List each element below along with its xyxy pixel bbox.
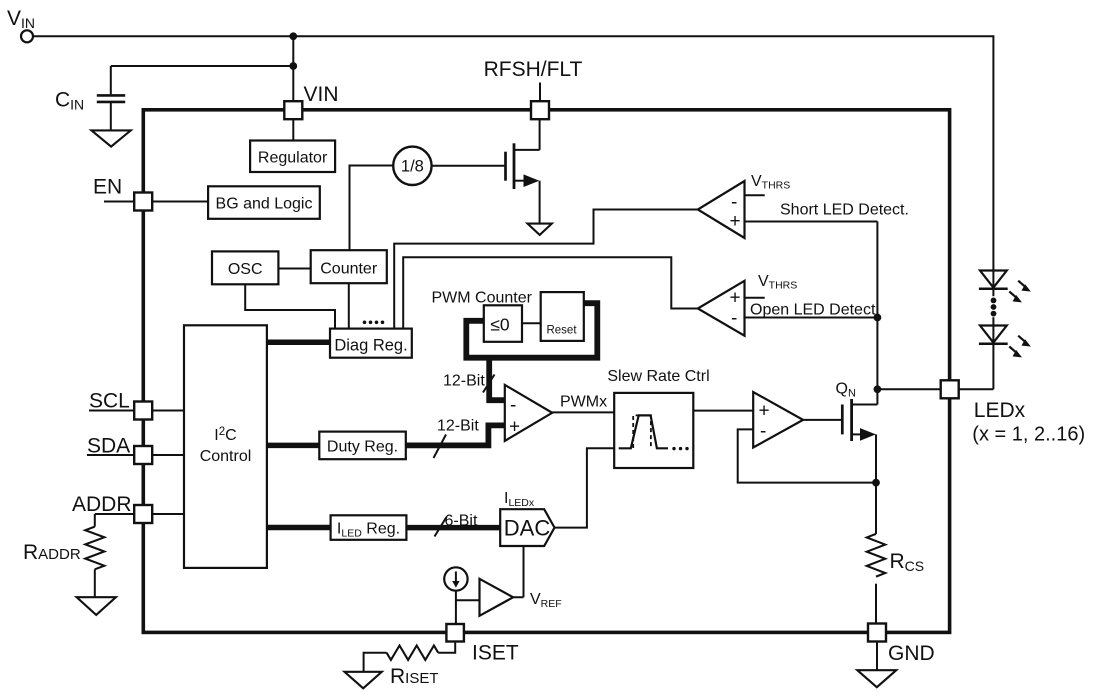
wire tap to vref buffer [456,599,480,601]
block Reset [541,292,584,341]
svg-text:ADDR: ADDR [72,493,132,516]
wire ADDR to I2C [152,513,184,515]
label 6-Bit with slash [435,513,478,537]
svg-text:Slew Rate Ctrl: Slew Rate Ctrl [607,368,709,385]
capacitor CIN [55,89,125,113]
wire open comparator minus to sense [745,317,878,319]
svg-text:VTHRS: VTHRS [751,173,790,192]
wire short comparator plus to sense [745,222,878,405]
op-amp short LED comparator [698,181,745,238]
wire op-amp feedback [738,429,876,482]
svg-text:Regulator: Regulator [258,150,328,167]
block Diag Reg [330,329,412,358]
wire VIN top rail [33,36,993,270]
svg-text:LEDx: LEDx [974,399,1026,422]
svg-text:+: + [509,417,520,438]
svg-text:Short LED Detect.: Short LED Detect. [780,202,909,219]
bus I2C to ILED Reg [267,525,331,531]
op-amp open LED comparator [698,281,745,336]
wire VTHRS stub open [745,297,765,299]
wire comparator to slew block [552,411,614,413]
svg-text:Duty Reg.: Duty Reg. [327,439,398,456]
pin EN [93,176,152,211]
bus I2C to Diag Reg [267,340,330,346]
transistor QN [836,381,878,534]
svg-text:RISET: RISET [390,665,439,688]
svg-text:1/8: 1/8 [401,158,424,176]
block PWM counter le0 [484,305,522,342]
svg-text:PWMx: PWMx [560,394,607,411]
svg-text:Diag Reg.: Diag Reg. [334,337,407,355]
svg-text:12-Bit: 12-Bit [443,373,485,390]
wire EN stub [104,201,134,203]
current source ISET [444,567,467,590]
wire SCL stub [89,410,134,412]
wire SCL to I2C [152,410,184,412]
block BG and Logic [208,186,320,219]
svg-text:VTHRS: VTHRS [758,273,797,292]
wire current source to ISET pin [455,591,457,624]
bus PWM counter loop [466,303,597,358]
wire 1/8 to gate [432,165,505,167]
svg-text:Control: Control [200,448,252,465]
svg-text:GND: GND [888,642,935,665]
op-amp output driver [753,392,803,448]
divider 1/8 [393,147,431,185]
svg-text:ISET: ISET [472,642,519,665]
block ILED Reg [331,515,407,540]
node QN source junction [872,479,880,487]
wire GND pin to ground [876,642,878,671]
bus Duty Reg to comparator plus [406,425,505,445]
svg-text:RCS: RCS [890,550,925,574]
wire 1/8 to Counter [350,166,394,251]
bus ILED Reg to DAC [406,525,500,531]
terminal V_IN [7,7,35,42]
svg-text:PWM Counter: PWM Counter [432,290,533,307]
block OSC [212,251,278,284]
label 12-Bit top with slash [443,373,495,393]
svg-text:+: + [730,288,741,309]
bus I2C to Duty Reg [267,443,319,449]
wire OSC to Counter [278,268,310,270]
regulator block [250,141,335,173]
wire op-amp to QN gate [803,419,841,421]
wire OSC to Diag Reg [245,284,335,328]
dac U-DAC [500,490,554,546]
wire SDA stub [87,454,134,456]
node top rail junction 1 [289,32,297,40]
svg-text:VREF: VREF [530,591,562,610]
pin LEDx [941,380,1085,445]
block Counter [311,250,387,283]
svg-text:Open LED Detect.: Open LED Detect. [750,302,880,319]
pin RFSH/FLT [484,58,583,119]
ground under RADDR [77,597,116,615]
svg-text:-: - [510,395,516,416]
node sense junction open [874,314,882,322]
block I2C Control [184,325,267,568]
block Duty Reg [319,432,406,460]
op-amp VREF buffer [480,579,514,616]
pin ISET [446,624,518,665]
svg-text:≤0: ≤0 [490,315,510,335]
svg-text:12-Bit: 12-Bit [437,418,479,435]
wire LEDx pin to LED string [959,344,994,390]
svg-text:+: + [759,401,770,422]
resistor RISET [387,646,439,689]
svg-text:DAC: DAC [504,516,551,541]
wire to CIN [111,66,293,94]
svg-text:VIN: VIN [7,7,35,31]
resistor RADDR [23,527,104,570]
svg-text:-: - [731,308,737,329]
wire RADDR to ground [94,569,96,597]
wire RCS to GND pin [875,584,877,624]
svg-text:QN: QN [836,381,856,400]
op-amp PWM comparator [505,385,552,441]
svg-text:RADDR: RADDR [23,541,81,564]
svg-text:OSC: OSC [228,261,263,278]
pin SCL [89,390,152,420]
wire open-detect output to Diag Reg [403,257,698,328]
transistor refresh FET [506,119,540,223]
svg-text:-: - [760,421,766,442]
wire EN to BG block [152,201,208,203]
block Slew Rate Ctrl [607,368,709,468]
wire RISET to ground [364,653,387,672]
wire short-detect output to Diag Reg [394,210,698,329]
svg-text:-: - [731,192,737,213]
ground under refresh FET [528,224,552,235]
svg-text:ILEDx: ILEDx [504,490,535,509]
wire ISET pin to RISET [438,642,455,653]
svg-text:(x = 1, 2..16): (x = 1, 2..16) [972,424,1085,446]
wire buffer to DAC [513,546,523,597]
diode LED2 [979,317,1029,356]
wire ADDR stub [95,514,134,527]
node diag dots [363,321,385,325]
wire VIN pin to Regulator [292,119,294,141]
wire SDA to I2C [152,454,184,456]
diode LED1 [979,271,1029,302]
bus 12-bit to comparator minus [489,358,505,401]
IC boundary [143,110,949,633]
pin ADDR [72,493,152,523]
wire Counter to Diag Reg [348,283,350,328]
wire QN drain to LEDx pin [877,388,940,390]
svg-text:CIN: CIN [55,89,84,113]
node QN drain junction [874,385,882,393]
ground under GND pin [857,670,896,687]
resistor RCS [867,534,924,577]
pin GND [868,624,935,666]
wire le0 to Reset [522,322,541,324]
pin SDA [87,435,152,465]
ground under RISET [345,672,382,689]
svg-text:Counter: Counter [320,261,378,278]
pin VIN [284,83,338,119]
svg-text:VIN: VIN [304,83,339,106]
svg-text:SCL: SCL [89,390,130,413]
ground under CIN [92,130,131,146]
svg-text:SDA: SDA [87,435,130,458]
svg-text:EN: EN [93,176,122,199]
label 12-Bit bottom with slash [434,418,480,459]
svg-text:6-Bit: 6-Bit [445,513,478,530]
wire DAC to slew block [555,448,615,527]
svg-text:I2C: I2C [214,426,236,444]
wire slew to output op-amp [693,410,753,412]
wire CIN to ground [110,103,112,130]
wire VIN drop to pin [292,36,294,101]
node CIN branch junction [289,62,297,70]
svg-text:RFSH/FLT: RFSH/FLT [484,58,583,81]
node LED string dots [991,298,997,317]
svg-text:BG and Logic: BG and Logic [216,196,313,213]
wire VTHRS stub short [745,194,765,196]
svg-text:Reset: Reset [546,325,577,337]
svg-text:+: + [730,211,741,232]
wire RFSH/FLT stub [539,83,541,102]
